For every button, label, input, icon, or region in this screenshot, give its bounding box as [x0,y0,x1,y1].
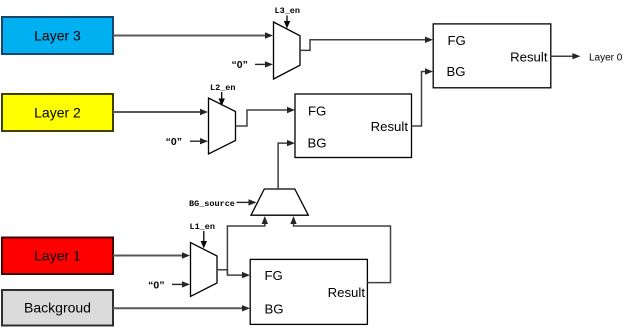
wire Layer2 to M2 [113,109,208,115]
block Layer 2 [2,94,113,131]
label Layer 0 output [589,53,623,64]
svg-text:Result: Result [510,50,548,65]
svg-text:L3_en: L3_en [275,6,301,16]
wire M3 out to FG of U3 [300,37,433,51]
svg-text:Backgroud: Backgroud [24,300,91,316]
svg-text:Layer 1: Layer 1 [34,248,81,264]
label zero input M1 [148,280,190,292]
wire Layer1 to M1 [113,252,190,258]
mux M1 (L1 select) [191,243,218,297]
label zero input M3 [232,59,274,71]
mux M0 (BG_source select) [251,189,308,215]
svg-text:“0”: “0” [232,59,248,71]
svg-text:FG: FG [308,104,326,119]
mux M2 (L2 select) [209,98,236,154]
label L3_en [275,6,301,29]
svg-text:Result: Result [371,119,409,134]
svg-text:BG: BG [265,302,284,317]
wire M1 out branch to M0 left input [227,216,268,274]
wire U2 result to BG of U3 [412,68,434,126]
svg-text:“0”: “0” [148,280,164,292]
block Layer 3 [2,17,113,54]
wire U1 result to M0 right input [290,216,390,283]
compositor U1 (bottom) [250,259,367,324]
svg-text:BG: BG [308,136,327,151]
wire U3 result to Layer 0 [551,53,581,59]
block Background [2,290,113,326]
svg-text:L1_en: L1_en [190,222,216,232]
label BG_source [189,199,257,209]
wire M1 out to FG of U1 [217,270,250,279]
wire M2 out to FG of U2 [236,107,296,126]
compositor U3 (top) [433,24,551,88]
svg-text:“0”: “0” [166,136,182,148]
wire Layer3 to M3 [113,32,273,38]
svg-text:Layer 2: Layer 2 [34,105,81,121]
svg-text:FG: FG [448,33,466,48]
label L1_en [190,222,216,249]
svg-text:Layer 3: Layer 3 [34,28,81,44]
svg-text:L2_en: L2_en [210,83,236,93]
svg-text:FG: FG [265,268,283,283]
block Layer 1 [2,238,113,275]
label L2_en [210,83,236,106]
wire Background to BG of U1 [113,305,250,311]
svg-text:BG: BG [447,64,466,79]
svg-text:BG_source: BG_source [189,199,235,209]
mux M3 (L3 select) [274,22,301,79]
svg-text:Layer 0: Layer 0 [589,53,623,64]
compositor U2 (middle) [295,94,412,158]
label zero input M2 [166,136,208,148]
svg-text:Result: Result [328,285,366,300]
wire M0 out to BG of U2 [278,140,295,189]
